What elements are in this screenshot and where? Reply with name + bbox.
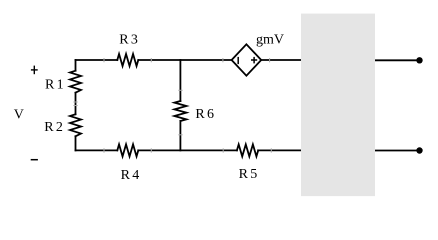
svg-text:R1: R1 — [45, 77, 66, 92]
wire R6 bottom — [179, 121, 181, 150]
wire bottom rail left segment — [76, 149, 118, 151]
resistor R1 — [70, 71, 81, 93]
diamond plus mark — [251, 57, 257, 64]
wire left vertical top — [75, 60, 77, 71]
resistor R6 — [174, 101, 186, 121]
wire right bottom — [375, 150, 420, 152]
gray block — [301, 14, 375, 197]
dependent source gmV diamond — [232, 44, 262, 75]
svg-text:gmV: gmV — [256, 33, 284, 48]
wire top rail right segment to box — [261, 59, 301, 61]
wire top rail middle segment — [138, 59, 231, 61]
resistor R4 — [117, 144, 138, 156]
node dot bottom right — [416, 147, 422, 153]
wire top rail left segment — [76, 59, 118, 61]
svg-text:R3: R3 — [119, 33, 140, 48]
source plus sign — [31, 66, 38, 75]
node dot top right — [416, 57, 422, 63]
wire right top — [375, 59, 420, 61]
svg-text:R4: R4 — [121, 168, 142, 183]
svg-text:V: V — [14, 107, 24, 122]
wire bottom rail middle segment — [138, 149, 237, 151]
resistor R2 — [70, 114, 81, 136]
resistor R3 — [117, 54, 138, 66]
wire left vertical bottom — [75, 136, 77, 150]
svg-text:R2: R2 — [44, 120, 65, 135]
resistor R5 — [237, 144, 258, 156]
svg-text:R6: R6 — [195, 107, 216, 122]
terminal ticks — [73, 58, 271, 153]
source minus sign — [31, 159, 38, 161]
diamond polarity bar (vertical) — [237, 57, 239, 64]
wire R6 top — [179, 60, 181, 101]
svg-text:R5: R5 — [239, 167, 260, 182]
wire left vertical middle — [75, 93, 77, 115]
wire bottom rail right segment to box — [258, 149, 301, 151]
